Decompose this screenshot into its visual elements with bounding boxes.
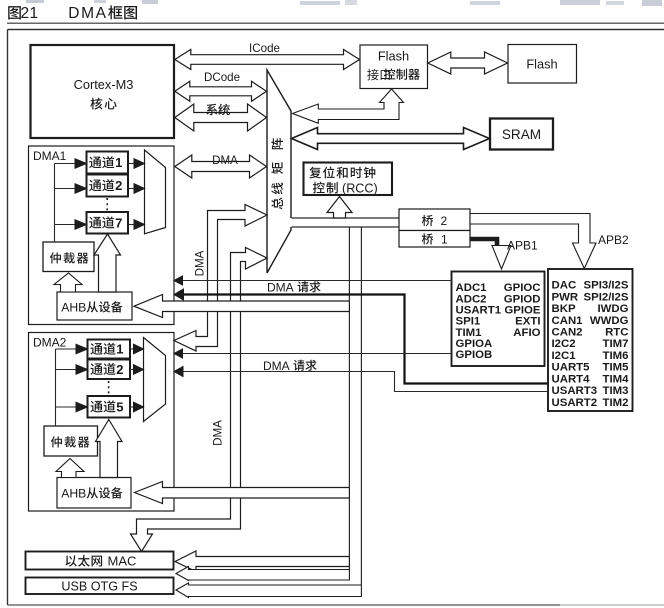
arrow System bus 系统 [175,104,267,131]
arrow DMA2 master bus to matrix [174,205,267,352]
wire DMA2 channel input [56,406,77,408]
svg-text:EXTI: EXTI [515,316,540,328]
box SRAM [490,119,553,150]
svg-text:DMA: DMA [194,250,207,276]
arrow DMA1 master bus [175,155,267,178]
box bridge 桥1 [399,231,470,248]
label 以太网 MAC [66,555,77,566]
box RCC 复位和时钟控制 [304,163,393,196]
arrowhead DMA2 channel to mux [134,365,144,375]
arrow matrix to flash interface controller [293,89,404,123]
box Ethernet MAC 以太网 [26,552,174,570]
svg-text:SPI3/I2S: SPI3/I2S [584,280,629,292]
arrowhead into DMA2 channel [76,402,88,412]
label 控制 (RCC) [313,182,325,194]
label 仲裁器 [50,252,61,263]
arrow bus to USB OTG FS lower [176,583,361,598]
svg-text:USB OTG FS: USB OTG FS [61,579,137,593]
arrowhead into DMA2 channel [76,365,88,375]
svg-text:SPI2/I2S: SPI2/I2S [584,291,629,303]
svg-text:SRAM: SRAM [502,127,541,142]
svg-text:MAC: MAC [108,554,137,569]
label DMA 请求 lower [263,359,317,373]
box USB OTG FS [26,578,174,595]
svg-text:IWDG: IWDG [597,303,628,315]
title 图21 [8,6,21,19]
wire matrix to bridges bottom [292,226,400,228]
wire DMA2 channel input [56,369,77,371]
label 核心 [90,98,102,110]
box DMA1 arbiter 仲裁器 [43,242,94,272]
svg-text:APB1: APB1 [507,239,538,253]
svg-text:DMA: DMA [212,420,225,446]
svg-text:SPI1: SPI1 [456,316,481,328]
svg-text:DMA: DMA [263,359,292,373]
svg-text:USART2: USART2 [552,397,598,409]
svg-text:2: 2 [115,178,122,193]
svg-text:21: 21 [21,5,39,22]
arrowhead into DMA1 channel [75,184,87,194]
svg-text:AHB: AHB [61,301,86,315]
svg-text:CAN1: CAN1 [552,315,584,327]
box DMA1 通道7 [87,212,129,234]
svg-text:GPIOA: GPIOA [456,338,493,350]
arrow DMA2 AHB slave to channel5 [96,420,123,478]
svg-text:DAC: DAC [552,280,577,292]
box DMA2 block [29,333,175,512]
svg-text:PWR: PWR [552,291,579,303]
arrowhead DMA2 channel to mux [134,344,144,354]
svg-text:DMA: DMA [212,154,238,167]
diagram outer frame [8,29,664,31]
arrowhead DMA1 channel to mux [134,184,145,194]
box Flash interface controller [360,45,428,89]
wire DMA1 channel output y=188 [128,188,135,190]
svg-text:1: 1 [116,342,123,357]
arrowhead into DMA1 channel [75,220,87,230]
svg-text:RTC: RTC [605,327,628,339]
box Flash [508,45,577,84]
label 系统 [206,104,230,116]
svg-text:7: 7 [115,215,122,230]
svg-text:AFIO: AFIO [513,327,540,339]
arrow bus to Ethernet MAC [175,551,349,572]
svg-text:2: 2 [441,214,448,228]
wire DMA1 channel input y=163 [55,163,76,165]
dotted ellipsis DMA1 channels [106,198,108,211]
wire DMA1 request line to APB1 peripherals (bold) [183,295,548,384]
svg-text:DMA: DMA [68,5,107,22]
wire DMA1 arbiter bus vertical [54,164,56,243]
title underline rule [7,22,664,24]
DMA1 channel mux trapezoid [145,150,166,234]
arrow DMA1 AHB slave to arbiter [54,273,82,292]
svg-text:APB2: APB2 [598,233,629,247]
arrowhead DMA2 request 2 [174,367,183,377]
arrow bus to DMA2 AHB slave [135,482,350,504]
arrowhead DMA1 channel to mux [134,159,145,169]
svg-text:I2C1: I2C1 [552,350,577,362]
box bridge 桥2 [399,209,470,231]
bus matrix 总线矩阵 [267,70,291,273]
svg-text:TIM3: TIM3 [603,385,629,397]
arrow ICode bus [175,50,360,70]
box DMA1 block [29,146,175,325]
wire DMA1 channel input y=188 [55,188,76,190]
arrow bridge1 to APB1 peripherals [470,239,497,245]
wire AHB bus vertical pair right [360,227,362,585]
svg-text:CAN2: CAN2 [552,327,583,339]
wire DMA1 channel output y=163 [128,163,135,165]
svg-text:DCode: DCode [204,71,240,84]
wire DMA2 channel output [130,369,135,371]
arrowhead DMA1 request 1 [174,276,183,285]
arrow bus to DMA1 AHB slave [134,295,349,318]
svg-text:TIM7: TIM7 [603,338,629,350]
box DMA1 AHB slave AHB从设备 [57,292,132,320]
svg-text:DMA1: DMA1 [33,149,67,163]
arrow DMA1 AHB slave to channel7 [94,234,121,292]
svg-text:BKP: BKP [552,303,576,315]
DMA2 channel mux trapezoid [144,338,166,422]
arrowhead DMA2 request 1 [174,349,183,358]
box DMA2 通道1 [88,340,131,359]
box DMA1 通道1 [87,152,129,174]
svg-text:TIM6: TIM6 [603,350,629,362]
svg-text:Cortex-M3: Cortex-M3 [74,77,134,92]
svg-text:GPIOD: GPIOD [504,293,541,305]
wire matrix to bridges top [292,217,400,219]
svg-text:UART4: UART4 [552,373,591,385]
svg-text:ADC2: ADC2 [456,293,487,305]
svg-text:2: 2 [116,362,123,377]
wire DMA2 arbiter bus vertical [55,349,57,426]
label 复位和时钟 [309,167,321,179]
wire DMA2 request line to APB1 peripherals [183,372,548,392]
svg-text:5: 5 [116,399,123,414]
box DMA2 AHB slave AHB从设备 [57,478,131,509]
dotted ellipsis DMA2 channels [108,381,110,394]
wire DMA1 channel input y=224 [55,224,76,226]
svg-text:I2C2: I2C2 [552,338,576,350]
box DMA2 arbiter 仲裁器 [44,426,98,456]
arrowhead into DMA1 channel [75,159,87,169]
svg-text:TIM5: TIM5 [603,362,630,374]
wire DMA1 channel output y=224 [128,224,135,226]
arrowhead DMA2 channel to mux [134,402,144,412]
arrow matrix to SRAM [292,128,490,150]
svg-text:AHB: AHB [61,487,86,501]
svg-text:1: 1 [115,155,122,170]
arrowhead DMA1 request 2 [174,289,184,300]
wire DMA1 request line to APB2 peripherals [180,280,452,282]
arrow bridges bus to RCC [327,197,352,219]
box APB1 peripherals [548,269,633,411]
box DMA2 通道5 [88,396,131,418]
arrow matrix to Ethernet MAC bus [131,248,268,552]
svg-text:DMA2: DMA2 [33,336,67,350]
svg-text:UART5: UART5 [552,362,591,374]
svg-text:Flash: Flash [378,49,409,64]
faint scan artifacts [26,0,44,3]
svg-text:(RCC): (RCC) [342,181,378,195]
arrow bus to USB OTG FS upper [176,567,349,581]
svg-text:DMA: DMA [267,280,296,294]
label DMA 请求 upper [267,280,321,294]
label 仲裁器 DMA2 [51,436,62,447]
svg-text:Flash: Flash [526,56,557,71]
wire DMA2 channel output [130,348,135,350]
arrowhead DMA1 channel to mux [134,220,145,230]
wire AHB bus vertical pair left [348,227,350,301]
arrow bridge2 to APB2 peripherals [470,214,596,269]
arrow flash controller to Flash [428,52,508,74]
wire DMA2 channel input [56,348,77,350]
svg-text:TIM4: TIM4 [603,373,630,385]
svg-text:GPIOB: GPIOB [456,349,493,361]
svg-text:TIM2: TIM2 [603,397,629,409]
box APB2 peripherals [452,272,545,367]
box Cortex-M3 core [31,45,175,138]
arrow DMA2 AHB slave to arbiter [56,459,84,478]
svg-text:1: 1 [441,233,448,247]
box DMA2 通道2 [88,360,131,380]
box DMA1 通道2 [87,175,129,197]
svg-text:ICode: ICode [249,42,280,55]
arrowhead into DMA2 channel [76,344,88,354]
arrow DCode bus [175,81,267,101]
svg-text:USART3: USART3 [552,385,598,397]
svg-text:接口: 接口 [367,67,391,82]
svg-text:WWDG: WWDG [590,315,629,327]
wire DMA2 channel output [130,406,135,408]
wire DMA2 request line to APB2 peripherals [180,353,452,355]
